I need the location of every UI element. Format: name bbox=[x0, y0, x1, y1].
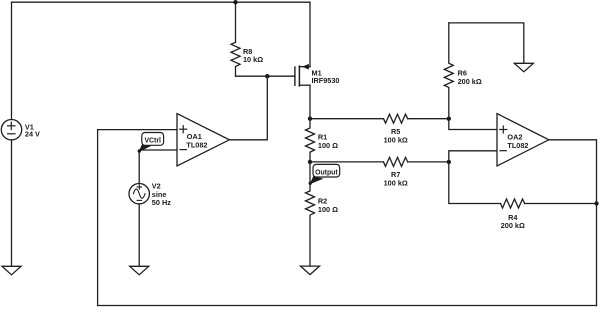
resistor R5 100 kOhm bbox=[384, 114, 408, 123]
wire R6 top to ground bbox=[449, 23, 524, 63]
wire M1 source down bbox=[309, 85, 311, 119]
wire R1 bottom to R2 top bbox=[309, 162, 311, 191]
svg-text:TL082: TL082 bbox=[507, 141, 528, 150]
wire bottom rail bbox=[98, 305, 597, 307]
resistor R4 200 kOhm bbox=[501, 199, 525, 208]
svg-text:VCtrl: VCtrl bbox=[144, 138, 161, 145]
ground (V1) bbox=[2, 266, 21, 275]
wire R4 left bbox=[449, 162, 501, 204]
svg-text:50 Hz: 50 Hz bbox=[152, 198, 171, 207]
op-amp OA1 TL082 bbox=[177, 114, 229, 166]
flag VCtrl bbox=[138, 133, 164, 153]
node junction R5 / R6 / OA2 + bbox=[447, 117, 451, 121]
resistor R7 100 kOhm bbox=[384, 157, 408, 166]
wire R7 left bbox=[310, 161, 384, 163]
wire OA2 + input jog bbox=[449, 119, 497, 130]
resistor R2 100 Ohm bbox=[306, 191, 315, 266]
ground (V2) bbox=[130, 266, 149, 275]
resistor R8 10 kOhm bbox=[231, 2, 240, 76]
wire OA1 output to gate node bbox=[229, 76, 267, 140]
resistor R1 100 Ohm bbox=[306, 119, 315, 162]
wire V1 top lead bbox=[11, 2, 13, 119]
svg-text:200 kΩ: 200 kΩ bbox=[501, 221, 525, 230]
svg-text:100 kΩ: 100 kΩ bbox=[384, 136, 408, 145]
wire R8 bottom to M1 gate bbox=[236, 75, 295, 77]
svg-text:100 Ω: 100 Ω bbox=[318, 205, 338, 214]
wire OA1 + input left loop bbox=[98, 130, 177, 306]
wire V1 bottom lead bbox=[11, 140, 13, 266]
node junction R1 / R7 / output bbox=[308, 160, 312, 164]
wire OA1 - input bbox=[139, 149, 177, 151]
voltage source V2 sine bbox=[129, 184, 149, 204]
wire R5 right bbox=[408, 118, 449, 120]
svg-text:100 kΩ: 100 kΩ bbox=[384, 179, 408, 188]
svg-text:TL082: TL082 bbox=[186, 140, 207, 149]
voltage source V1 bbox=[1, 120, 21, 140]
wire V2 bottom lead bbox=[138, 204, 140, 266]
wire R7 right bbox=[408, 161, 449, 163]
wire V2 top lead bbox=[138, 150, 140, 184]
op-amp OA2 TL082 bbox=[497, 114, 549, 166]
svg-text:200 kΩ: 200 kΩ bbox=[458, 77, 482, 86]
node junction M1 source / R1 / R5 bbox=[308, 117, 312, 121]
wire top rail from V1 to M1 drain bbox=[12, 1, 311, 3]
node junction gate wire / OA1 output bbox=[265, 74, 269, 78]
svg-text:10 kΩ: 10 kΩ bbox=[243, 55, 263, 64]
node junction R4 / output rail bbox=[594, 201, 598, 205]
resistor R6 200 kOhm bbox=[444, 23, 453, 119]
wire M1 drain to top rail bbox=[309, 2, 311, 67]
wire R5 left bbox=[310, 118, 384, 120]
node junction R7 / OA2 - / R4 bbox=[447, 160, 451, 164]
svg-text:Output: Output bbox=[315, 169, 338, 176]
wire OA2 - input jog bbox=[449, 151, 497, 162]
svg-text:100 Ω: 100 Ω bbox=[318, 141, 338, 150]
svg-text:IRF9530: IRF9530 bbox=[312, 76, 340, 85]
svg-text:24 V: 24 V bbox=[25, 130, 40, 139]
ground (R2) bbox=[301, 266, 320, 275]
wire R4 right bbox=[525, 203, 597, 205]
flag Output bbox=[309, 164, 340, 185]
wire OA2 output right rail bbox=[549, 140, 597, 306]
svg-text:R6: R6 bbox=[458, 68, 467, 77]
node junction top rail / R8 bbox=[233, 0, 237, 4]
transistor M1 IRF9530 bbox=[295, 64, 310, 86]
ground (R6 loop) bbox=[514, 63, 533, 72]
